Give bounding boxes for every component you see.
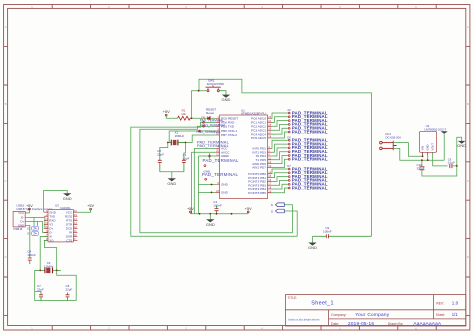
svg-text:100nF: 100nF	[27, 253, 36, 257]
pad terminal P12	[288, 168, 290, 170]
capacitor C6	[450, 164, 452, 168]
capacitor C10	[422, 160, 457, 176]
U1 left pin numbers	[216, 115, 219, 193]
svg-text:22pF: 22pF	[157, 153, 164, 157]
svg-text:Reset: Reset	[206, 111, 214, 115]
pad terminal P8	[288, 147, 290, 149]
svg-text:D0: D0	[287, 136, 291, 140]
svg-text:+5V: +5V	[26, 204, 33, 208]
svg-text:USB-B: USB-B	[13, 227, 22, 231]
svg-text:DC-005-20A: DC-005-20A	[386, 136, 402, 140]
wire switch left leg	[192, 79, 372, 236]
svg-text:D: D	[271, 210, 273, 214]
U1 right pin stubs	[268, 119, 272, 193]
svg-text:D: D	[467, 255, 469, 259]
svg-text:D: D	[5, 255, 7, 259]
svg-text:PAD_TERMINAL: PAD_TERMINAL	[292, 185, 328, 190]
svg-text:D7: D7	[287, 164, 291, 168]
svg-text:EVQ22705R: EVQ22705R	[207, 82, 225, 86]
pad terminal P13	[288, 172, 290, 174]
ground left of C9	[312, 236, 314, 242]
pad terminal P6	[288, 139, 290, 141]
junctions X2	[39, 270, 41, 272]
svg-text:GND: GND	[222, 97, 231, 102]
svg-text:PAD_TERMINAL: PAD_TERMINAL	[200, 119, 224, 123]
svg-text:VCC: VCC	[18, 211, 24, 215]
svg-text:+5V: +5V	[87, 204, 94, 208]
svg-text:PAD_TERMINAL: PAD_TERMINAL	[292, 157, 328, 162]
svg-text:C: C	[467, 179, 469, 183]
junction dots GND pins	[211, 184, 213, 186]
pad terminal P4	[288, 127, 290, 129]
svg-text:+5V: +5V	[163, 110, 170, 114]
pad terminal P5	[288, 131, 290, 133]
svg-text:2019-05-16: 2019-05-16	[348, 321, 374, 326]
wire X2 left to C7	[35, 270, 41, 291]
svg-text:Sheet_1: Sheet_1	[311, 300, 334, 306]
svg-text:Company:: Company:	[331, 313, 347, 317]
svg-text:PAD_TERMINAL: PAD_TERMINAL	[202, 172, 239, 177]
svg-text:CTS: CTS	[66, 239, 72, 243]
wire RXD loop	[131, 122, 297, 236]
svg-text:GND: GND	[18, 224, 24, 228]
op wires: MCU U1 ATMEGA328P-PU box	[220, 115, 268, 199]
svg-text:Sheet:: Sheet:	[436, 313, 445, 317]
svg-text:B: B	[467, 102, 469, 106]
pad terminal P3	[288, 124, 290, 126]
svg-text:GND: GND	[221, 183, 229, 187]
svg-text:22pF: 22pF	[66, 288, 73, 292]
pad terminal on TXD	[203, 125, 205, 127]
gnd arrow above (U2 gnd)	[441, 131, 448, 134]
crystal X2 line	[36, 269, 61, 271]
svg-text:D3: D3	[27, 231, 31, 235]
U2 pin stubs	[423, 152, 433, 155]
wire XO staircase	[45, 240, 57, 270]
wire AVCC to +5V rail	[192, 152, 216, 214]
wire X2 right to C8	[57, 270, 76, 300]
svg-text:Your Company: Your Company	[355, 312, 390, 317]
pad terminal overlay near XTAL	[199, 130, 201, 132]
svg-text:PAD_TERMINAL: PAD_TERMINAL	[203, 158, 240, 163]
U1 right pin numbers	[268, 115, 271, 193]
svg-text:PAD_TERMINAL: PAD_TERMINAL	[292, 129, 328, 134]
svg-text:D2: D2	[27, 226, 31, 230]
svg-text:GND: GND	[63, 196, 72, 201]
pad terminal P0	[288, 112, 290, 114]
svg-text:B: B	[5, 102, 7, 106]
pad terminal P15	[288, 180, 290, 182]
net flag D+ pentagon	[276, 203, 285, 207]
capacitor C3	[216, 206, 218, 214]
svg-text:100nF: 100nF	[213, 203, 222, 207]
svg-text:PB7 XTAL2: PB7 XTAL2	[221, 133, 237, 137]
pad terminal P14	[288, 176, 290, 178]
svg-text:A: A	[5, 25, 7, 29]
wire VOUT to C6 and right	[433, 152, 448, 166]
svg-text:TITLE:: TITLE:	[288, 296, 298, 300]
ground below SW1	[222, 95, 230, 98]
svg-text:Drawn By:: Drawn By:	[388, 322, 404, 326]
svg-text:330nF: 330nF	[417, 166, 425, 170]
capacitor C8	[67, 293, 69, 301]
svg-text:GND: GND	[221, 191, 229, 195]
wires: U1 pins to pad terminals	[272, 113, 289, 193]
wire VCC to +5V rail	[194, 148, 215, 213]
pad symbol near AREF	[209, 155, 211, 157]
svg-text:12MHz: 12MHz	[44, 264, 54, 268]
svg-text:D: D	[271, 203, 273, 207]
ground under C3	[209, 214, 211, 220]
svg-text:AaAaAaAaA: AaAaAaAaA	[413, 321, 442, 326]
wire crystal left to C2	[160, 143, 168, 158]
pad terminal P7	[288, 143, 290, 145]
svg-text:VOUT: VOUT	[431, 143, 435, 151]
resistor R1	[178, 116, 191, 120]
wires to clamp diodes	[34, 218, 38, 227]
diode D5 on reset line	[207, 116, 210, 120]
svg-text:PC5 ADC5: PC5 ADC5	[251, 136, 266, 140]
U3 pin stubs	[44, 212, 78, 240]
crystal X2	[45, 268, 53, 274]
wire XTAL1 to crystal	[169, 131, 215, 143]
diode D3	[32, 232, 39, 236]
wire crystal right to C1	[184, 143, 186, 158]
U1 left pin names	[221, 117, 238, 195]
svg-text:1/1: 1/1	[452, 312, 458, 317]
pad terminal P10	[288, 155, 290, 157]
U3 pin numbers	[46, 210, 77, 241]
junction switch top	[198, 90, 200, 92]
wire C6 to right gnd	[452, 137, 462, 166]
capacitor C4	[29, 255, 31, 265]
svg-text:GND: GND	[167, 181, 176, 186]
svg-text:1.0: 1.0	[452, 301, 459, 306]
diode D2	[32, 226, 39, 230]
U3 pin names	[49, 210, 73, 242]
svg-text:U3: U3	[55, 203, 59, 207]
pad terminal P2	[288, 120, 290, 122]
wires USB D-/D+ to U3	[28, 218, 48, 233]
svg-text:16MHz: 16MHz	[175, 134, 185, 138]
junctions on +5V rail	[199, 213, 201, 215]
title block	[285, 295, 465, 326]
svg-text:A: A	[467, 25, 469, 29]
svg-text:XO: XO	[49, 239, 54, 243]
svg-text:PCINT5 PB5: PCINT5 PB5	[248, 191, 266, 195]
regulator U2 box	[419, 131, 436, 152]
switch SW1 symbol	[206, 86, 227, 95]
ground above U3	[44, 190, 68, 212]
bottom rail X2 caps	[35, 292, 76, 301]
svg-text:+5V: +5V	[245, 207, 252, 211]
ground below crystal caps	[168, 178, 176, 181]
wire +5V to R1 to reset line	[166, 116, 215, 118]
svg-text:0.1uF: 0.1uF	[448, 161, 455, 165]
USB1 pin stubs	[25, 213, 28, 226]
svg-text:REV:: REV:	[436, 301, 444, 305]
svg-text:22pF: 22pF	[37, 288, 44, 292]
wire MCU GND pins down	[199, 156, 216, 214]
USB1 connector box	[13, 211, 25, 227]
capacitor C7	[40, 292, 42, 301]
svg-text:Icede.on.abc.deiqhr.ahmsrt: Icede.on.abc.deiqhr.ahmsrt	[288, 318, 320, 322]
wire XTAL2 to crystal	[186, 135, 216, 143]
svg-text:PAD_TERMINAL: PAD_TERMINAL	[202, 123, 226, 127]
capacitor C1	[183, 158, 185, 172]
pad terminal P17	[288, 187, 290, 189]
junction reset/switch	[191, 117, 193, 119]
pad terminal P16	[288, 183, 290, 185]
svg-text:22pF: 22pF	[183, 157, 190, 161]
U1 right pin names	[248, 117, 266, 195]
svg-text:PAD_TERMINAL: PAD_TERMINAL	[197, 143, 230, 148]
svg-text:Date:: Date:	[331, 322, 339, 326]
U1 left pin stubs	[216, 119, 220, 193]
crystal X1	[168, 142, 186, 144]
svg-text:GND: GND	[206, 222, 215, 227]
pad terminal P9	[288, 151, 290, 153]
svg-text:A0: A0	[287, 108, 291, 112]
junctions crystal	[167, 142, 169, 144]
wire caps bottom rail to ground	[160, 172, 184, 179]
ground right edge	[458, 141, 466, 144]
pad terminal P1	[288, 116, 290, 118]
svg-text:GND: GND	[426, 144, 430, 150]
svg-text:VIN: VIN	[421, 146, 425, 151]
svg-text:10k: 10k	[181, 112, 186, 116]
svg-text:GND: GND	[308, 245, 317, 250]
svg-text:PAD_TERMINAL: PAD_TERMINAL	[197, 130, 221, 134]
capacitor C2	[159, 158, 161, 172]
net flag D- pentagon	[276, 209, 285, 213]
svg-text:AIN1 PD7: AIN1 PD7	[252, 166, 266, 170]
U3 serial chip box	[48, 210, 73, 242]
pad terminal P11	[288, 158, 290, 160]
capacitor C9 on +5V rail	[313, 235, 372, 237]
svg-text:+5V: +5V	[187, 207, 194, 211]
wire TXD loop	[140, 126, 293, 232]
pad terminal on RXD	[203, 122, 205, 124]
svg-text:LM7805Q-5G2-T: LM7805Q-5G2-T	[425, 127, 447, 131]
+5V rail under MCU	[190, 213, 248, 215]
wire jack to VIN	[393, 143, 422, 157]
wire jack sleeve to gnd rail	[393, 134, 444, 160]
svg-text:GND: GND	[457, 143, 466, 148]
svg-text:ATMEGA328P-PU: ATMEGA328P-PU	[241, 112, 266, 116]
svg-text:100nF: 100nF	[323, 230, 332, 234]
wire USB GND to C4	[28, 226, 30, 255]
U2 pin names vertical	[421, 143, 435, 151]
svg-text:C: C	[5, 179, 7, 183]
wire XI down	[40, 236, 48, 270]
